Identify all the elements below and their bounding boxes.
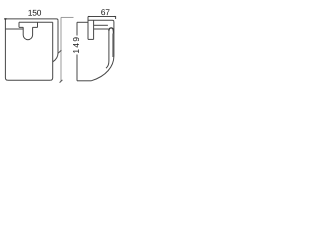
- dim text 67: [101, 9, 109, 15]
- 149 inner dim line (broken for text) + extensions: [76, 22, 78, 81]
- step line y22.3: [19, 21, 53, 23]
- bottom edge: [77, 80, 92, 82]
- left shelf line y29: [5, 28, 23, 30]
- dim text 149: [73, 37, 79, 53]
- 149 outer faint dim line: [61, 17, 74, 81]
- bracket left vertical: [18, 22, 20, 27]
- arm low line: [94, 28, 109, 30]
- 67 dim line: [88, 17, 116, 20]
- right inner edge: [50, 22, 53, 80]
- left edge: [5, 19, 8, 80]
- cup: [23, 27, 32, 35]
- outer right edge + big sweep: [92, 22, 114, 81]
- outer lip right vertical + J curve: [53, 20, 58, 61]
- wall plate: [87, 17, 89, 40]
- 150 dim left arrowhead: [4, 18, 6, 20]
- arm mid line: [94, 24, 108, 26]
- top edge: [88, 20, 114, 22]
- cover inner-right line: [112, 34, 114, 58]
- oblique ticks on outer dim: [58, 50, 62, 83]
- dim text 150: [28, 10, 41, 16]
- bracket bottom segments y27.4: [19, 26, 38, 28]
- bottom edge: [8, 79, 50, 81]
- bracket right vertical: [37, 22, 39, 27]
- hinge knuckle dome + inner leg: [106, 28, 113, 68]
- box top edge (doubles as 150 dim line): [4, 19, 58, 21]
- 67 dim arrowhead dashes: [88, 16, 116, 18]
